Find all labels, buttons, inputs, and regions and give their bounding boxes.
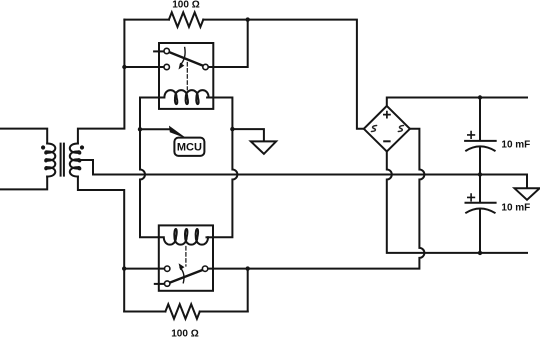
svg-text:10 mF: 10 mF [501,203,530,214]
svg-text:10 mF: 10 mF [501,140,530,151]
svg-text:MCU: MCU [177,141,202,153]
svg-text:100 Ω: 100 Ω [171,329,198,337]
svg-text:100 Ω: 100 Ω [172,0,199,11]
